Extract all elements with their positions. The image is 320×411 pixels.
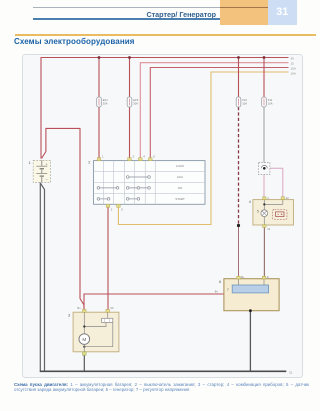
- ground bus: [40, 370, 287, 372]
- svg-text:B+: B+: [78, 306, 82, 310]
- svg-text:EF1: EF1: [103, 98, 108, 102]
- header blue underline: [33, 18, 220, 20]
- wire: pink bus 15 with drop to switch pin 4: [140, 63, 288, 159]
- wire: fused feed to connector (grey): [263, 58, 265, 98]
- fuse F11: [262, 97, 273, 107]
- connector: [259, 163, 270, 175]
- motor M: [79, 334, 90, 345]
- svg-text:4: 4: [249, 200, 251, 204]
- svg-text:LOCK: LOCK: [176, 164, 184, 168]
- caption: [14, 382, 309, 394]
- svg-text:10A: 10A: [242, 102, 247, 106]
- svg-text:3: 3: [68, 313, 70, 317]
- wire: fused feed to generator B+ upper: [238, 58, 240, 98]
- svg-text:START: START: [175, 197, 185, 201]
- battery pictogram: [272, 209, 287, 219]
- generator pads: [237, 276, 266, 279]
- fuse F10: [236, 97, 247, 107]
- svg-text:15: 15: [291, 61, 295, 65]
- wire: dashed maroon section to junction: [238, 107, 240, 226]
- svg-text:EF5: EF5: [133, 98, 138, 102]
- starter pads: [83, 309, 110, 312]
- svg-text:10: 10: [286, 196, 289, 200]
- instrument cluster 4: [253, 196, 294, 231]
- svg-text:30A: 30A: [133, 102, 138, 106]
- terminal pads top: [97, 158, 152, 207]
- battery 1: [33, 160, 50, 182]
- svg-text:5: 5: [121, 208, 123, 212]
- svg-text:7: 7: [227, 288, 229, 292]
- wire: thin maroon to generator B+: [238, 226, 240, 280]
- diagram panel: [22, 54, 303, 378]
- wire: battery negative pair to ground bus: [40, 183, 44, 372]
- svg-text:B+: B+: [215, 290, 219, 294]
- wire: starter B to generator side terminal: [84, 294, 224, 311]
- svg-text:F10: F10: [242, 98, 247, 102]
- cluster pads: [263, 197, 285, 228]
- svg-text:2: 2: [111, 208, 113, 212]
- header title text: [33, 10, 216, 19]
- pin numbers: [102, 154, 155, 211]
- svg-text:50: 50: [111, 306, 114, 310]
- solenoid: [102, 318, 113, 322]
- svg-text:5: 5: [257, 209, 259, 213]
- wire: main red feed bus 30 with left drop to battery: [41, 58, 289, 159]
- svg-text:F11: F11: [268, 98, 273, 102]
- fuse EF5: [127, 97, 139, 107]
- wire: tan bus loop to switch pin 5: [118, 72, 288, 225]
- header top thin line: [33, 7, 268, 8]
- ignition switch 2: [94, 154, 206, 211]
- svg-text:M: M: [82, 337, 86, 342]
- header line over orange: [220, 7, 268, 8]
- svg-text:D: D: [267, 275, 269, 279]
- wire: switch pin 2 to starter S: [107, 207, 109, 311]
- svg-text:15А: 15А: [291, 66, 296, 70]
- junction dots on bus 30: [98, 56, 266, 59]
- wire: generator ground: [249, 311, 251, 371]
- wire: cluster pin 12 to generator D: [263, 227, 265, 279]
- svg-text:+: +: [46, 162, 48, 166]
- header orange block: [220, 0, 268, 25]
- bus terminal labels: [291, 56, 296, 75]
- starter 3: [73, 306, 119, 355]
- svg-text:6: 6: [219, 280, 221, 284]
- wire: fused feed to switch pin 3: [129, 58, 131, 159]
- fuse EF1: [97, 97, 109, 107]
- wire: red bus 15A with drop to switch pin 6: [150, 68, 288, 159]
- wire: pink branch to cluster pin 10: [270, 168, 283, 198]
- svg-text:30: 30: [291, 56, 295, 60]
- svg-text:1: 1: [102, 154, 104, 158]
- svg-text:15А: 15А: [291, 71, 296, 75]
- svg-text:ACC: ACC: [177, 175, 184, 179]
- svg-text:–: –: [46, 178, 48, 182]
- generator 6: [215, 275, 279, 312]
- svg-text:12: 12: [267, 227, 270, 231]
- wire: pink from connector to cluster pin 4: [263, 175, 265, 199]
- svg-text:31: 31: [289, 370, 293, 374]
- contacts: [97, 176, 150, 201]
- svg-text:10A: 10A: [268, 102, 273, 106]
- header page-number block: [268, 0, 297, 25]
- wire: starter ground: [83, 355, 85, 371]
- svg-text:4: 4: [143, 154, 145, 158]
- svg-text:B+: B+: [241, 275, 245, 279]
- regulator 7: [232, 285, 268, 293]
- wire: fused feed to switch pin 1: [98, 58, 100, 159]
- charge warning lamp 5: [261, 210, 268, 217]
- section title: [14, 37, 135, 46]
- svg-text:6: 6: [153, 154, 155, 158]
- svg-text:1: 1: [29, 161, 31, 165]
- svg-text:3: 3: [133, 154, 135, 158]
- svg-text:30A: 30A: [103, 102, 108, 106]
- orange rule above section title: [15, 34, 316, 36]
- wire: battery positive loop to starter B: [42, 128, 85, 310]
- junction dot maroon wire: [237, 224, 240, 227]
- svg-text:2: 2: [88, 161, 90, 165]
- svg-text:ON: ON: [178, 186, 183, 190]
